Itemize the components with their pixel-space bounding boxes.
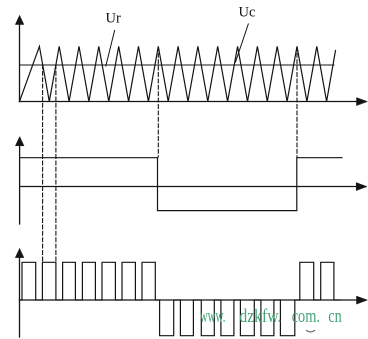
y-axis top panel [19,24,21,102]
leader line for Ur [106,31,115,67]
x-axis arrowhead bottom panel [357,296,368,304]
x-axis top panel [20,101,359,103]
y-axis arrowhead middle panel [15,137,23,146]
dashed construction line d3 (peak at polarity change) [157,47,159,157]
x-axis bottom panel [20,299,359,301]
svg-text:Uc: Uc [239,5,256,21]
dashed construction line d1 (first crossing) [42,65,44,261]
y-axis middle panel [19,145,21,224]
triangle carrier wave Ur [20,46,336,101]
control square wave (middle panel) [20,158,342,211]
reference level line Uc (top panel) [20,64,335,66]
y-axis arrowhead bottom panel [15,249,23,258]
x-axis arrowhead middle panel [356,183,367,191]
svg-text:Ur: Ur [106,11,121,27]
dashed construction line d4 (peak at polarity return) [296,47,298,157]
small tilde artifact mark [307,331,315,333]
PWM output pulse train (bottom panel) [20,262,341,335]
leader line for Uc [236,24,249,62]
y-axis bottom panel [19,257,21,337]
x-axis arrowhead top panel [357,98,368,106]
x-axis middle panel [20,186,358,188]
y-axis arrowhead top panel [15,16,23,25]
dashed construction line d2 (second crossing) [55,65,57,261]
